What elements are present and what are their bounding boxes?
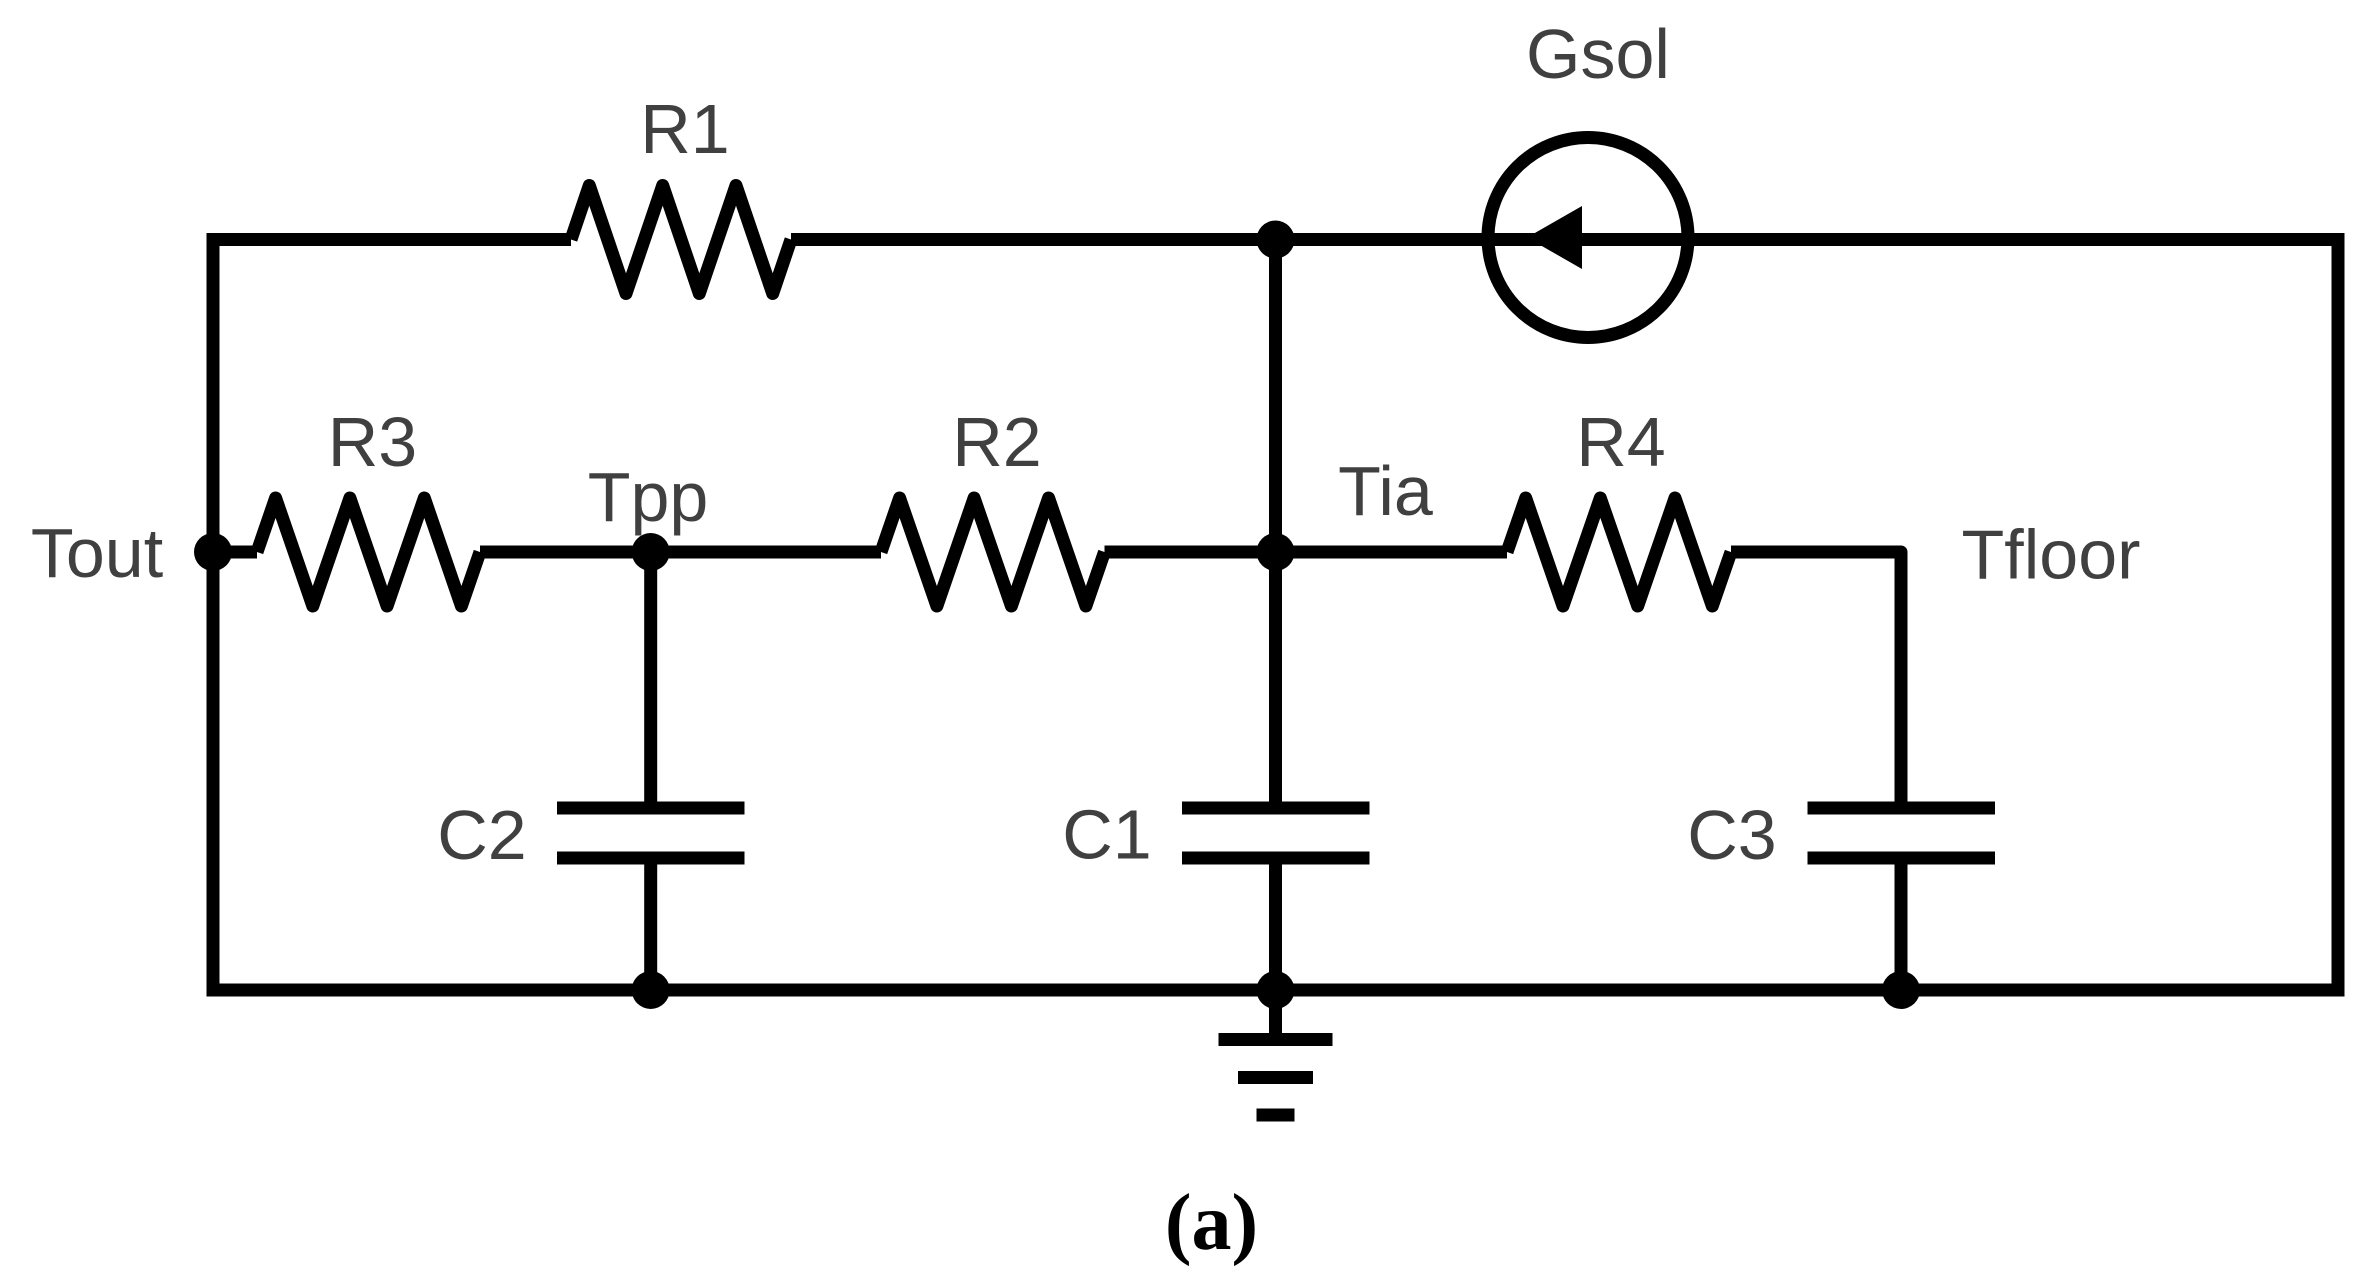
capacitor C3 lead [1895, 865, 1908, 991]
node bottom C2 dot [632, 971, 670, 1009]
ground bar 1 [1219, 1033, 1333, 1046]
ground bar 2 [1238, 1071, 1313, 1084]
svg-text:R2: R2 [952, 403, 1041, 481]
wire top horizontal (Tout loop top) [213, 233, 2338, 246]
svg-text:Tfloor: Tfloor [1962, 516, 2141, 594]
wire left vertical (Tout) [207, 233, 220, 997]
node Tia dot [1257, 533, 1295, 571]
resistor R1 [571, 186, 791, 294]
wire right vertical (outer loop) [2332, 233, 2345, 990]
wire Tfloor branch (R4 to right vertical drop) [1731, 552, 1901, 808]
svg-text:C1: C1 [1062, 796, 1151, 874]
node Tout dot [194, 533, 232, 571]
capacitor C2 plates [557, 808, 745, 858]
svg-text:Tia: Tia [1338, 452, 1433, 530]
resistor R2 [881, 498, 1105, 606]
capacitor C1 lead [1269, 865, 1282, 991]
ground stem [1269, 990, 1282, 1040]
svg-text:(a): (a) [1165, 1179, 1258, 1267]
svg-text:R4: R4 [1576, 403, 1665, 481]
resistor R3 [257, 498, 480, 606]
node Tpp dot [632, 533, 670, 571]
node bottom C1/ground dot [1257, 971, 1295, 1009]
ground bar 3 [1257, 1109, 1295, 1122]
capacitor C1 plates [1182, 808, 1370, 858]
capacitor C3 plates [1808, 808, 1996, 858]
wire middle horizontal (Tout-Tpp-Tia segment) [213, 546, 1507, 559]
svg-text:Gsol: Gsol [1526, 15, 1670, 93]
wire bottom horizontal (ground rail) [207, 984, 2345, 997]
node bottom C3 dot [1882, 971, 1920, 1009]
resistor R4 [1507, 498, 1731, 606]
svg-text:C2: C2 [437, 796, 526, 874]
svg-text:C3: C3 [1687, 796, 1776, 874]
wire center vertical (Tia node to top and bottom) [1269, 240, 1282, 809]
node top junction dot [1257, 221, 1295, 259]
svg-text:Tpp: Tpp [588, 458, 709, 536]
svg-text:Tout: Tout [31, 514, 163, 592]
capacitor C2 leads [644, 552, 657, 990]
svg-text:R1: R1 [640, 90, 729, 168]
current source arrow [1527, 206, 1582, 269]
svg-text:R3: R3 [328, 403, 417, 481]
current source Gsol circle [1488, 138, 1688, 338]
